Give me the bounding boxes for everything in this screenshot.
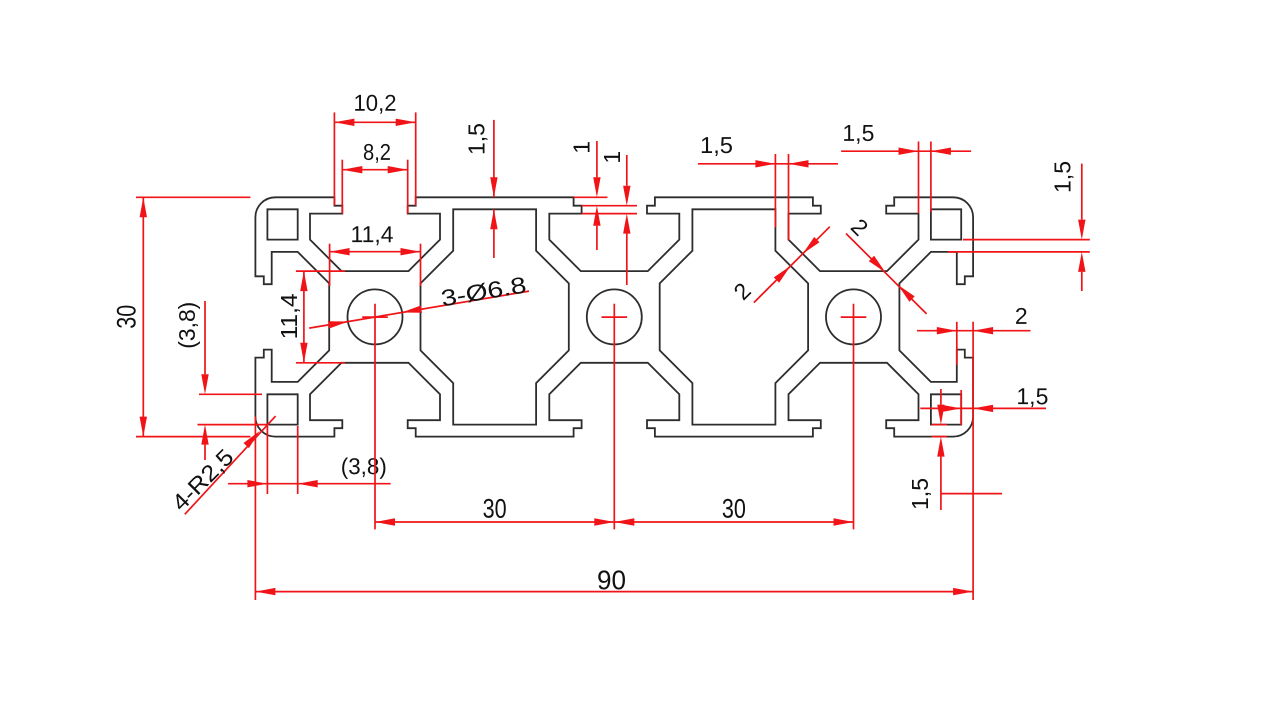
dimension 1 first mouth step depth xyxy=(569,141,637,250)
svg-text:1,5: 1,5 xyxy=(1016,383,1048,409)
dimension 11,4 core height xyxy=(276,271,345,363)
dimension 30 hole spacing left xyxy=(375,494,614,526)
dimension 2 web core 3 top-left xyxy=(728,227,829,305)
dimension 10,2 slot mouth width xyxy=(334,90,415,206)
corner cavity bottom-right xyxy=(931,394,961,424)
svg-text:1,5: 1,5 xyxy=(907,478,933,510)
dimension 90 overall width xyxy=(255,322,973,600)
svg-text:30: 30 xyxy=(111,305,141,329)
svg-text:1: 1 xyxy=(599,151,625,164)
svg-text:2: 2 xyxy=(1015,303,1028,329)
dimension 1,5 corner cavity side wall xyxy=(920,383,1048,425)
dimension 2 web core 3 top-right xyxy=(846,213,927,314)
dimension 1,5 top wall thickness xyxy=(464,120,498,258)
big octagonal cavity at 60mm xyxy=(660,209,808,424)
dimension 1,5 corner cavity bottom wall xyxy=(907,389,1002,510)
svg-text:8,2: 8,2 xyxy=(363,139,391,165)
profile outer outline with six T-slot mouths and rounded corners xyxy=(255,197,973,436)
big octagonal cavity at 30mm xyxy=(421,209,569,424)
hole 1 diameter 6.8 xyxy=(348,289,403,344)
dimension 11,4 core width xyxy=(330,221,421,286)
centerline hole 1 xyxy=(362,304,388,530)
dimension 3-diameter-6.8 holes leader xyxy=(309,271,529,328)
corner cavity bottom-left xyxy=(267,394,297,424)
svg-text:10,2: 10,2 xyxy=(353,90,396,116)
svg-text:(3,8): (3,8) xyxy=(341,453,387,479)
dimension 8,2 slot throat width xyxy=(342,139,407,214)
hole 3 diameter 6.8 xyxy=(826,289,881,344)
svg-text:90: 90 xyxy=(597,565,626,595)
dimension 30 profile height xyxy=(111,197,250,436)
dimension 1,5 wall between cavity 60 and core 3 chamber xyxy=(698,132,838,240)
svg-text:1,5: 1,5 xyxy=(1049,161,1075,193)
svg-text:1,5: 1,5 xyxy=(464,123,490,155)
dimension (3,8) corner cavity height xyxy=(174,301,267,460)
hole 2 diameter 6.8 xyxy=(587,289,642,344)
dimension 1 second mouth step depth xyxy=(582,151,637,285)
corner cavity top-right xyxy=(931,209,961,239)
svg-text:1: 1 xyxy=(569,141,595,154)
dimension (3,8) corner cavity width xyxy=(228,426,391,494)
centerline hole 2 xyxy=(602,304,628,530)
svg-text:(3,8): (3,8) xyxy=(174,302,200,349)
svg-text:11,4: 11,4 xyxy=(276,293,302,339)
svg-text:1,5: 1,5 xyxy=(700,132,733,158)
svg-text:1,5: 1,5 xyxy=(842,120,874,146)
svg-text:30: 30 xyxy=(483,494,507,524)
svg-text:11,4: 11,4 xyxy=(350,221,393,247)
corner cavity top-left xyxy=(267,209,297,239)
dimension 4-R2,5 corner radius leader xyxy=(167,416,276,516)
dimension 30 hole spacing right xyxy=(614,494,853,526)
dimension 1,5 wall corner cavity to end slot xyxy=(948,161,1090,291)
dimension 2 end slot lip depth xyxy=(917,303,1031,365)
dimension 1,5 wall between core 3 chamber and corner cavity xyxy=(841,120,971,214)
svg-text:30: 30 xyxy=(722,494,746,524)
centerline hole 3 xyxy=(841,304,867,530)
